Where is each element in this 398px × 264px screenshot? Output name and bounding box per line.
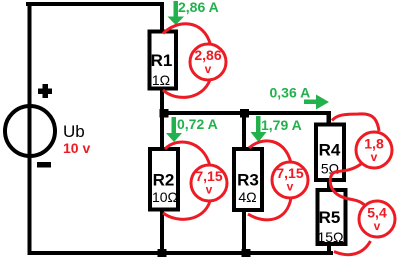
voltmeter V2 across R2 (7,15 V) xyxy=(163,142,227,219)
svg-text:v: v xyxy=(374,219,381,233)
junction bottom bus right (R3 branch) xyxy=(242,249,251,257)
svg-text:1,79 A: 1,79 A xyxy=(261,117,302,133)
junction middle bus left (R2 branch) xyxy=(160,109,169,118)
wire middle bus (node between R1, R2, R3, R4) xyxy=(160,111,331,115)
svg-text:5Ω: 5Ω xyxy=(321,161,339,177)
svg-text:R1: R1 xyxy=(151,51,173,70)
current arrow I(R4,R5) 0,36 A xyxy=(304,95,329,110)
plus sign of source xyxy=(38,84,52,98)
resistor R3 xyxy=(234,149,262,210)
svg-text:0,72 A: 0,72 A xyxy=(177,116,218,132)
current arrow I(R1) 2,86 A xyxy=(168,1,185,25)
wire R1 bottom lead to middle bus and R2 top xyxy=(160,90,164,148)
wire R3 top lead xyxy=(242,115,246,148)
svg-text:15Ω: 15Ω xyxy=(317,229,343,245)
voltmeter V4 across R4 (1,8 V) xyxy=(330,114,392,206)
svg-text:2,86: 2,86 xyxy=(194,47,221,63)
svg-text:4Ω: 4Ω xyxy=(238,189,256,205)
svg-text:R2: R2 xyxy=(153,171,175,190)
wire bottom bus (ground return rail) xyxy=(28,251,334,255)
wire R3 bottom lead xyxy=(242,211,246,251)
svg-text:0,36 A: 0,36 A xyxy=(270,85,311,101)
voltmeter V1 across R1 (2,86 V) xyxy=(163,24,226,98)
svg-text:v: v xyxy=(287,180,294,194)
svg-text:R5: R5 xyxy=(319,208,341,227)
svg-text:Ub: Ub xyxy=(63,122,85,141)
resistor R4 xyxy=(316,125,344,181)
svg-text:v: v xyxy=(206,183,213,197)
svg-text:2,86 A: 2,86 A xyxy=(178,0,219,15)
current arrow I(R3) 1,79 A xyxy=(251,116,267,142)
current arrow I(R2) 0,72 A xyxy=(166,117,182,142)
resistor R2 xyxy=(150,149,178,210)
wire left vertical (through source Ub) xyxy=(28,2,32,255)
svg-text:R3: R3 xyxy=(237,171,259,190)
svg-text:10 v: 10 v xyxy=(63,140,90,156)
wire R1 top lead xyxy=(160,2,164,30)
wire R4-R5 connector xyxy=(327,181,331,189)
svg-text:1Ω: 1Ω xyxy=(152,72,170,88)
resistor R5 xyxy=(318,190,346,244)
wire R4 top stub xyxy=(327,115,332,123)
resistor R1 xyxy=(150,32,177,89)
wire top bus (Ub+ to R1) xyxy=(26,2,164,6)
voltmeter V3 across R3 (7,15 V) xyxy=(248,141,308,220)
svg-text:v: v xyxy=(371,150,378,164)
svg-text:R4: R4 xyxy=(319,141,341,160)
voltage source Ub (circle symbol) xyxy=(5,106,55,156)
minus sign of source xyxy=(37,162,51,168)
svg-text:10Ω: 10Ω xyxy=(152,189,178,205)
wire R2 bottom lead xyxy=(160,211,164,251)
junction bottom bus left (R2 branch) xyxy=(158,249,167,257)
voltmeter V5 across R5 (5,4 V) xyxy=(334,201,395,255)
wire R5 bottom stub xyxy=(327,245,331,251)
junction middle bus right (R3 branch) xyxy=(240,109,249,118)
svg-text:v: v xyxy=(205,62,212,76)
